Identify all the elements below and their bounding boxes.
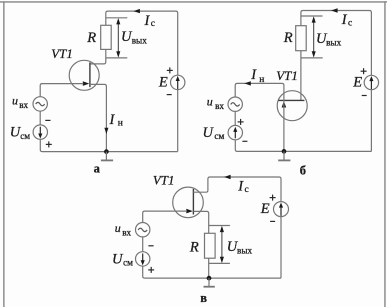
svg-text:с: с bbox=[348, 19, 352, 29]
border frame top bbox=[0, 1, 387, 3]
svg-text:VT1: VT1 bbox=[51, 46, 73, 61]
current arrow I_c (circuit b) bbox=[331, 8, 338, 12]
U_vykh bottom tick (circuit a) bbox=[106, 57, 128, 59]
U_vykh top tick (circuit a) bbox=[106, 17, 128, 19]
VT1 gate arrowhead (circuit b) bbox=[282, 101, 287, 108]
current arrow I_c (circuit v) bbox=[224, 175, 231, 179]
svg-text:вых: вых bbox=[326, 37, 342, 47]
svg-text:н: н bbox=[259, 75, 264, 85]
wire between u_vkh and U_sm (circuit b) bbox=[234, 111, 236, 125]
junction dot (circuit v) bbox=[207, 276, 212, 281]
plus sign E (circuit b) bbox=[361, 70, 367, 72]
wire: top rail and right branch down to E (circuit a) bbox=[106, 11, 178, 75]
plus sign (circuit a, below U_sm) bbox=[46, 143, 52, 145]
svg-text:б: б bbox=[300, 164, 306, 178]
ground (circuit v) bbox=[208, 278, 210, 286]
wire between u_vkh and U_sm (circuit a) bbox=[39, 111, 41, 125]
VT1 channel (circuit a) bbox=[89, 62, 91, 87]
ground (circuit a) bbox=[105, 152, 107, 160]
svg-text:см: см bbox=[20, 131, 30, 141]
minus sign E (circuit a) bbox=[167, 94, 172, 96]
wire: bottom rail (circuit v) bbox=[143, 266, 281, 278]
svg-text:вх: вх bbox=[215, 101, 224, 111]
junction dot (circuit b) bbox=[282, 149, 287, 154]
svg-text:вх: вх bbox=[122, 227, 131, 237]
VT1 gate arrowhead (circuit v) bbox=[186, 209, 193, 214]
voltage source E (circuit a) bbox=[171, 75, 185, 89]
svg-text:с: с bbox=[245, 185, 249, 195]
svg-text:VT1: VT1 bbox=[276, 68, 298, 83]
VT1 gate arrowhead (circuit a) bbox=[83, 81, 90, 86]
resistor R (circuit b) bbox=[296, 26, 307, 51]
U_vykh measure arrow (circuit v) bbox=[221, 228, 223, 262]
minus sign E (circuit b) bbox=[362, 95, 367, 97]
border frame right bbox=[384, 1, 386, 307]
U_vykh top tick (circuit b) bbox=[301, 15, 323, 17]
svg-text:а: а bbox=[94, 161, 101, 175]
border frame left bbox=[3, 1, 5, 307]
voltage source E (circuit v) bbox=[274, 202, 289, 217]
wire: right branch below E (circuit a) bbox=[177, 90, 179, 152]
svg-text:u: u bbox=[12, 93, 18, 107]
wire: input to source, down through to rail (circuit b) bbox=[235, 83, 284, 151]
wire: source lead down to rail (circuit a) bbox=[90, 84, 107, 151]
VT1 channel (circuit v) bbox=[192, 189, 194, 215]
junction dot (circuit a) bbox=[104, 149, 109, 154]
plus sign (circuit b, above U_sm) bbox=[238, 121, 244, 123]
U_vykh top tick (circuit v) bbox=[209, 225, 230, 227]
wire: bottom rail (circuit b) bbox=[235, 140, 371, 152]
svg-text:U: U bbox=[203, 125, 215, 141]
U_vykh measure arrow (circuit b) bbox=[313, 18, 315, 56]
minus sign (circuit a, above U_sm) bbox=[45, 119, 50, 121]
current arrow I_n (circuit b) bbox=[244, 81, 251, 85]
VT1 channel (circuit b) bbox=[278, 99, 304, 101]
svg-text:E: E bbox=[352, 74, 362, 90]
wire: bottom rail (circuit a) bbox=[40, 139, 177, 151]
voltage source E (circuit b) bbox=[364, 75, 378, 89]
wire: source lead down through R to rail (circuit v) bbox=[193, 211, 208, 278]
U_vykh measure arrow (circuit a) bbox=[117, 20, 119, 56]
current arrow I_n (circuit a) bbox=[104, 128, 108, 134]
current arrow I_c (circuit a) bbox=[133, 9, 140, 13]
plus sign E (circuit a) bbox=[167, 69, 173, 71]
svg-text:см: см bbox=[214, 131, 224, 141]
wire: top rail and right branch down to E (circuit b) bbox=[301, 11, 372, 76]
svg-text:в: в bbox=[200, 291, 207, 305]
DC source U_sm (circuit b) bbox=[228, 125, 242, 139]
U_vykh bottom tick (circuit v) bbox=[209, 262, 230, 264]
minus sign (circuit b, below U_sm) bbox=[242, 140, 247, 142]
plus sign (circuit v, below U_sm) bbox=[148, 269, 154, 271]
resistor R (circuit v) bbox=[205, 233, 216, 258]
svg-text:E: E bbox=[260, 201, 270, 217]
wire: R bottom to drain of VT1 (circuit b) bbox=[300, 51, 302, 101]
transistor VT1 circle (circuit v) bbox=[173, 187, 204, 218]
wire: gate lead (circuit a) bbox=[40, 84, 83, 97]
transistor VT1 circle (circuit a) bbox=[69, 60, 99, 90]
svg-text:вых: вых bbox=[237, 245, 253, 255]
svg-text:u: u bbox=[207, 94, 213, 108]
svg-text:R: R bbox=[86, 30, 96, 46]
svg-text:R: R bbox=[189, 240, 199, 256]
wire: right branch below E (circuit v) bbox=[280, 217, 282, 278]
transistor VT1 circle (circuit b) bbox=[277, 91, 307, 121]
wire: gate lead (circuit v) bbox=[143, 211, 187, 223]
svg-text:с: с bbox=[151, 19, 155, 29]
minus sign (circuit v, above U_sm) bbox=[148, 245, 153, 247]
svg-text:VT1: VT1 bbox=[153, 173, 175, 188]
AC source u_vkh (circuit a) bbox=[33, 97, 47, 111]
svg-text:см: см bbox=[123, 258, 133, 268]
svg-text:u: u bbox=[115, 221, 121, 235]
wire between u_vkh and U_sm (circuit v) bbox=[142, 237, 144, 252]
wire: right branch below E (circuit b) bbox=[370, 90, 372, 152]
svg-text:н: н bbox=[118, 119, 123, 129]
svg-text:R: R bbox=[283, 30, 293, 46]
svg-text:E: E bbox=[158, 74, 168, 90]
svg-text:вх: вх bbox=[19, 100, 28, 110]
AC source u_vkh (circuit v) bbox=[136, 223, 150, 237]
resistor R (circuit a) bbox=[101, 25, 112, 49]
AC source u_vkh (circuit b) bbox=[228, 97, 242, 111]
plus sign E (circuit v) bbox=[270, 197, 276, 199]
svg-text:вых: вых bbox=[132, 36, 148, 46]
DC source U_sm (circuit v) bbox=[136, 252, 150, 266]
U_vykh bottom tick (circuit b) bbox=[301, 57, 323, 59]
wire: drain lead up to top rail and to E (circuit v) bbox=[193, 177, 281, 202]
minus sign E (circuit v) bbox=[270, 220, 275, 222]
ground (circuit b) bbox=[283, 151, 285, 160]
DC source U_sm (circuit a) bbox=[33, 125, 47, 139]
wire: R bottom to drain of VT1 (circuit a) bbox=[90, 49, 106, 64]
